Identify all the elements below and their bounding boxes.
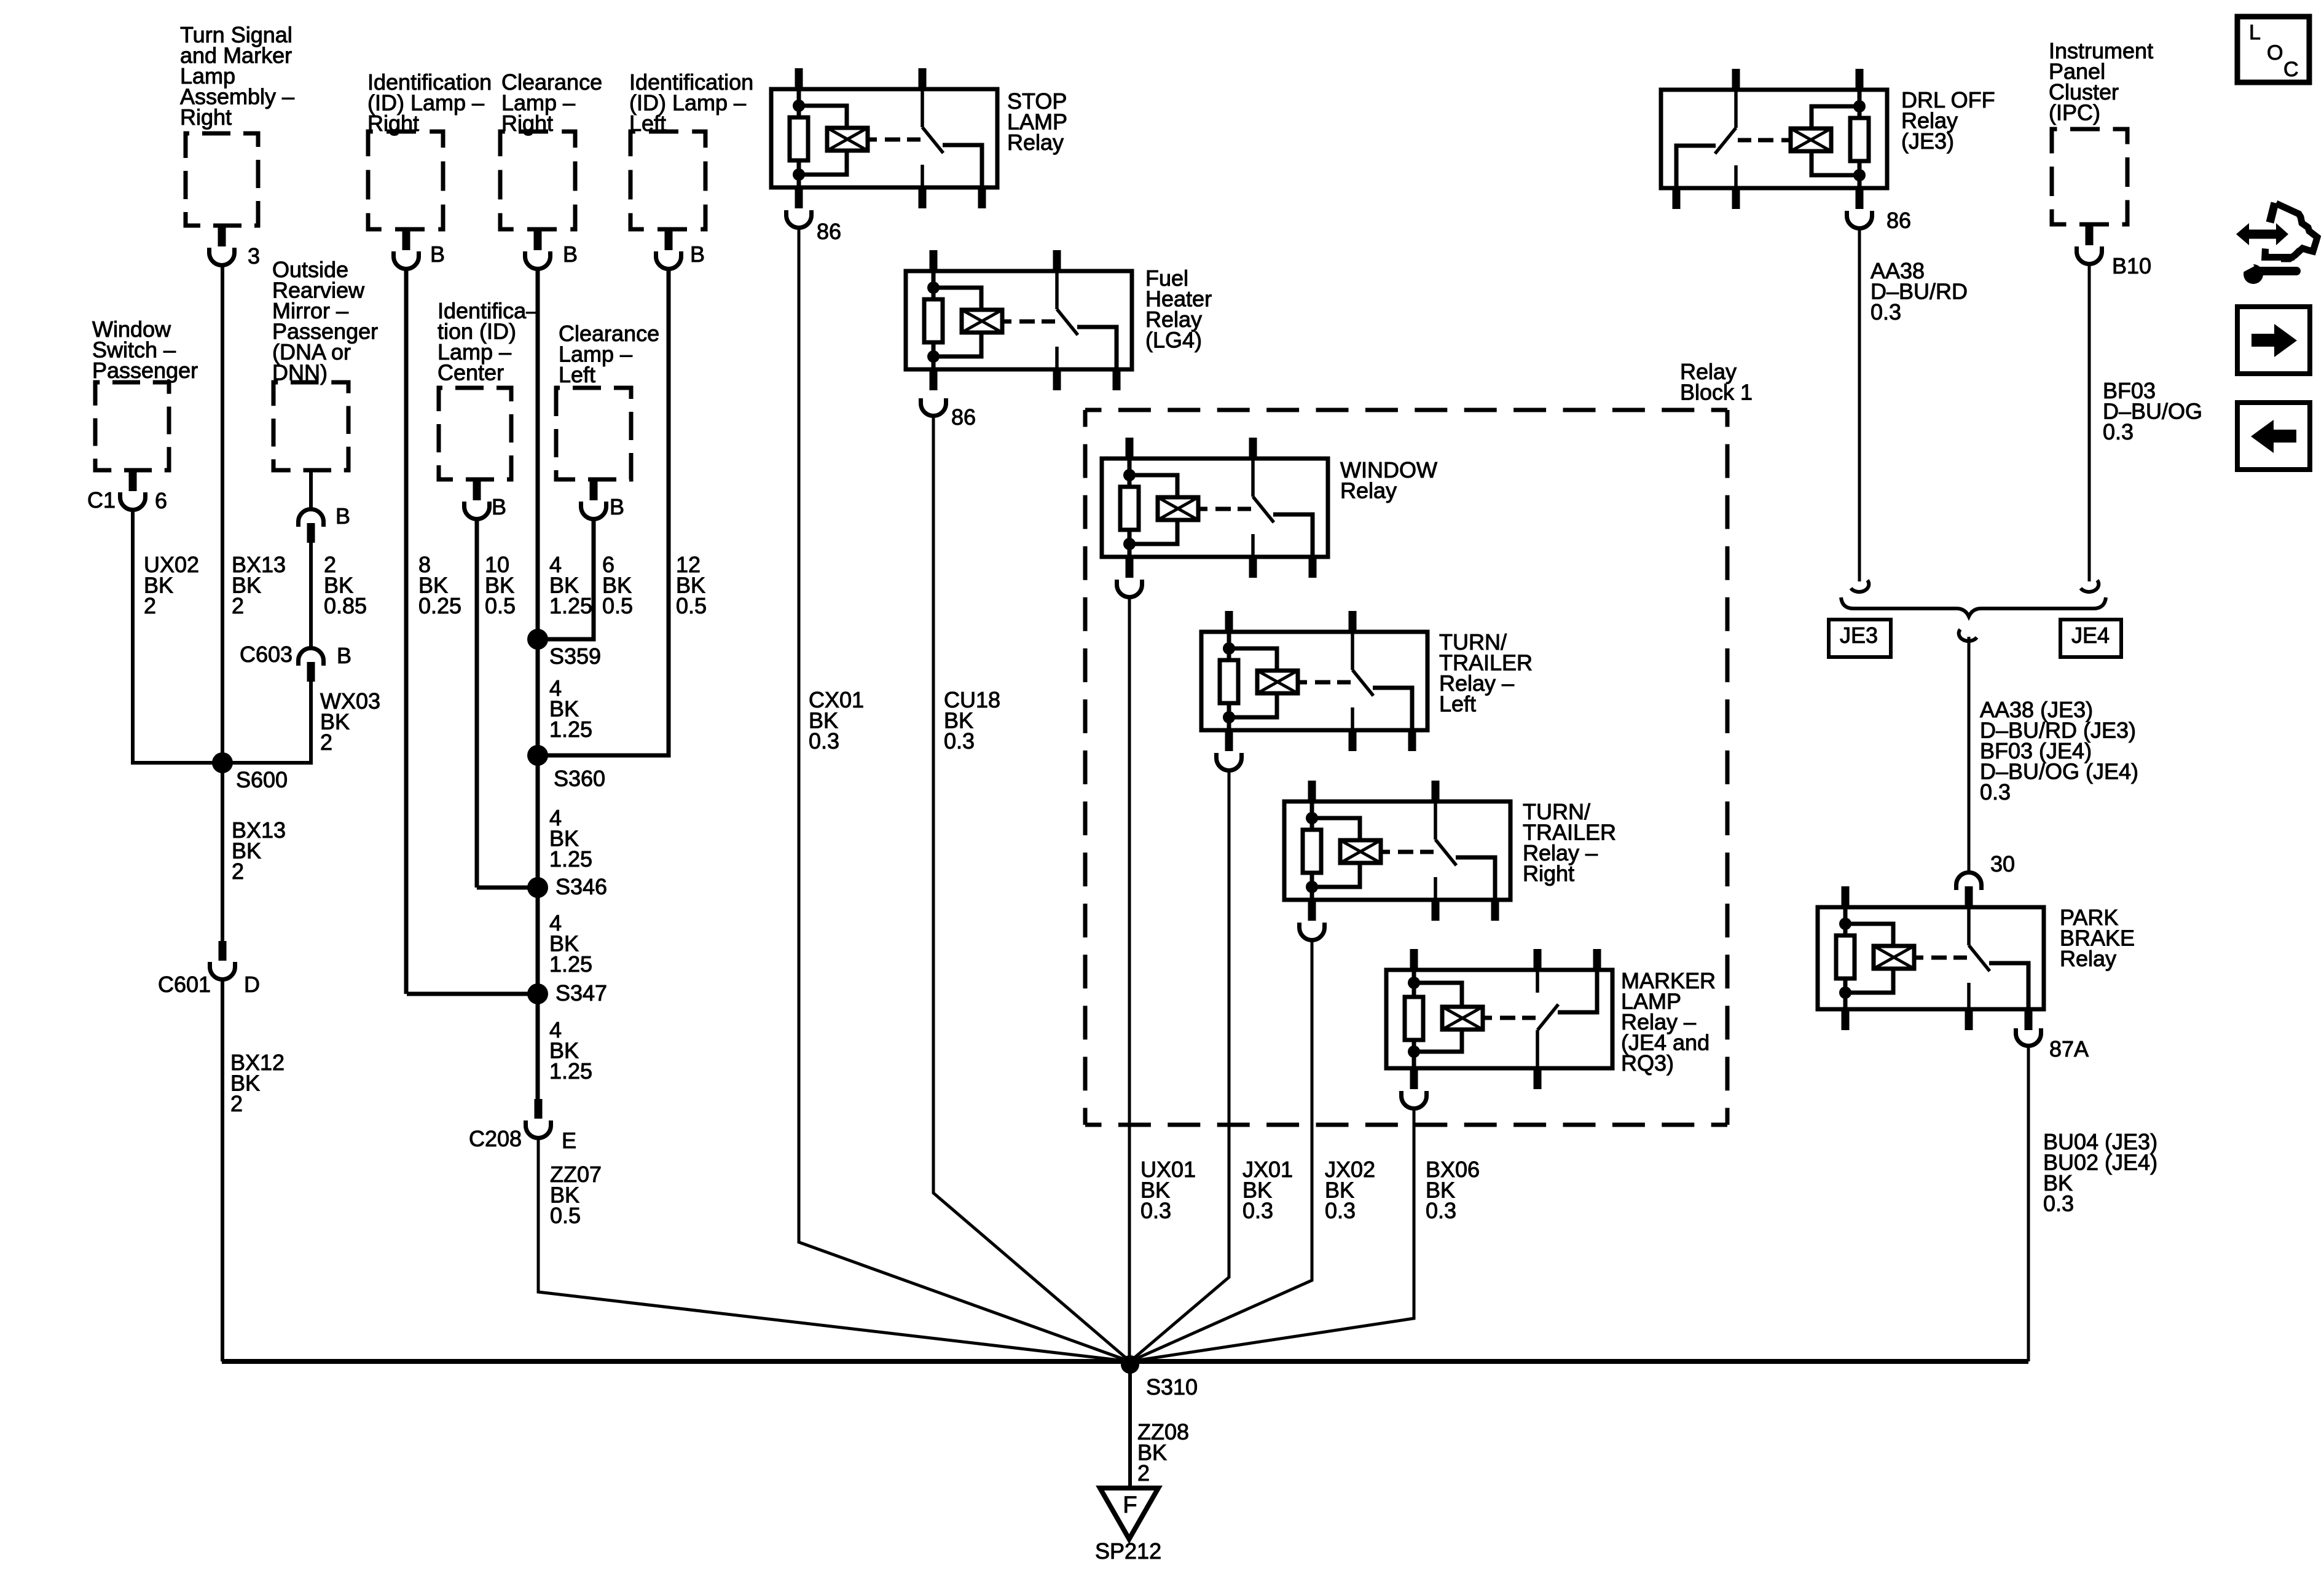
svg-text:B: B — [336, 503, 350, 529]
svg-text:1.25: 1.25 — [549, 846, 592, 872]
wire label BX06 BK 0.3 — [1426, 1157, 1480, 1223]
svg-text:Right: Right — [180, 104, 232, 130]
svg-text:Center: Center — [438, 360, 504, 385]
relay: WINDOW Relay — [1102, 438, 1328, 578]
svg-text:Passenger: Passenger — [92, 358, 198, 383]
wire label AA38 (JE3) D-BU/RD (JE3) BF03 (JE4) D-BU/OG (JE4) 0.3 — [1980, 697, 2138, 805]
svg-text:O: O — [2267, 41, 2283, 65]
ground bus wire to S310 — [222, 1359, 2028, 1364]
svg-text:C1: C1 — [87, 487, 116, 513]
wire label BX13 BK 2 (lower) — [232, 817, 286, 884]
wire label ZZ08 BK 2 — [1137, 1419, 1189, 1486]
svg-text:C603: C603 — [240, 642, 292, 667]
svg-text:86: 86 — [817, 219, 841, 244]
wire label UX02 BK 2 — [144, 552, 199, 618]
svg-text:C601: C601 — [158, 972, 211, 997]
svg-text:87A: 87A — [2049, 1036, 2089, 1061]
connector pin B of ID Lamp Right — [394, 229, 446, 269]
wire 10 BK 0.5 from ID lamp center down to S346 — [475, 518, 479, 888]
svg-text:0.3: 0.3 — [809, 728, 839, 754]
component: Clearance Lamp - Right — [500, 69, 602, 229]
net tag JE3 — [1829, 620, 1891, 657]
svg-text:(IPC): (IPC) — [2049, 100, 2100, 125]
ground symbol F SP212 — [1095, 1488, 1161, 1564]
wire ZZ08 from S310 down to ground — [1128, 1361, 1132, 1488]
splice S600 — [212, 752, 288, 792]
wire label 6 BK 0.5 — [602, 552, 633, 618]
svg-text:B10: B10 — [2112, 253, 2151, 278]
svg-text:Left: Left — [559, 362, 595, 387]
svg-text:0.3: 0.3 — [1871, 299, 1901, 325]
wire BX06 from marker lamp relay 86 down then diagonal to S310 — [1130, 1108, 1414, 1361]
splice S310 — [1121, 1355, 1198, 1400]
wire label 2 BK 0.85 — [324, 552, 367, 618]
wire ZZ07 from C208 down then diagonal to S310 — [538, 1138, 1130, 1361]
svg-text:RQ3): RQ3) — [1621, 1050, 1674, 1076]
wire CX01 from stop lamp relay 86 down then diagonal to S310 — [799, 227, 1130, 1361]
svg-text:C208: C208 — [469, 1126, 522, 1151]
relay: DRL OFF Relay (JE3) — [1661, 69, 1887, 209]
svg-text:1.25: 1.25 — [549, 1058, 592, 1084]
svg-text:0.3: 0.3 — [1980, 779, 2011, 805]
svg-text:B: B — [610, 494, 624, 519]
splice S346 — [527, 874, 607, 899]
connector 86 of WINDOW relay — [1117, 580, 1142, 597]
component: Turn Signal and Marker Lamp Assembly - Right — [180, 22, 294, 226]
svg-text:B: B — [563, 242, 578, 267]
wire BX13 from turn signal pin 3 down to S600 — [221, 264, 224, 763]
PARK BRAKE Relay label — [2060, 905, 2135, 971]
wire label BX13 BK 2 (upper) — [232, 552, 286, 618]
wire label 8 BK 0.25 — [418, 552, 461, 618]
svg-text:0.5: 0.5 — [676, 593, 707, 618]
wire label 4 BK 1.25 (S347-C208) — [549, 1017, 592, 1084]
wire label 4 BK 1.25 (S360-S346) — [549, 805, 592, 872]
svg-text:Relay: Relay — [1340, 478, 1397, 503]
merge brace joining AA38 and BF03 — [1841, 597, 2106, 616]
connector C1 pin 6 of Window Switch — [87, 470, 167, 513]
wire end hook of AA38 — [1851, 580, 1869, 592]
svg-text:S360: S360 — [554, 766, 605, 791]
WINDOW Relay label — [1340, 457, 1437, 503]
svg-text:Left: Left — [1439, 691, 1476, 717]
splice S360 — [527, 745, 605, 791]
svg-text:1.25: 1.25 — [549, 593, 592, 618]
wire JX01 from turn/trailer left relay 86 down then diagonal to S310 — [1130, 770, 1229, 1361]
svg-text:6: 6 — [155, 488, 167, 513]
svg-text:0.3: 0.3 — [1242, 1198, 1273, 1223]
svg-text:(JE3): (JE3) — [1901, 128, 1954, 154]
svg-text:0.5: 0.5 — [550, 1203, 581, 1228]
svg-text:S359: S359 — [549, 644, 601, 669]
svg-text:B: B — [430, 242, 445, 267]
component: Outside Rearview Mirror - Passenger (DNA or DNN) — [272, 257, 378, 470]
splice S347 — [527, 980, 607, 1006]
connector 86 of DRL OFF relay — [1847, 208, 1912, 233]
svg-text:Relay: Relay — [1007, 130, 1064, 155]
wire 4 BK 1.25 from clearance lamp right down to C208 — [536, 268, 540, 1099]
svg-text:L: L — [2249, 21, 2261, 44]
wire label BX12 BK 2 — [230, 1050, 285, 1116]
svg-text:2: 2 — [320, 730, 332, 755]
Fuel Heater Relay label — [1145, 266, 1212, 353]
wire label JX02 BK 0.3 — [1325, 1157, 1375, 1223]
svg-text:Right: Right — [1523, 861, 1574, 886]
icon: LOC box — [2237, 17, 2309, 82]
svg-text:30: 30 — [1990, 851, 2015, 876]
wire end hook of BF03 — [2081, 580, 2098, 592]
wire label 4 BK 1.25 (S359-S360) — [549, 675, 592, 742]
wire label 4 BK 1.25 (S346-S347) — [549, 910, 592, 977]
TURN/TRAILER Relay - Left label — [1439, 629, 1533, 717]
wire start hook below brace — [1959, 629, 1977, 641]
wire label 10 BK 0.5 — [485, 552, 516, 618]
wire BF03 from IPC B10 down to brace — [2088, 263, 2091, 581]
svg-text:Relay: Relay — [2060, 946, 2116, 971]
component: Identification (ID) Lamp - Center — [438, 298, 538, 479]
connector C208 pin E — [469, 1099, 576, 1153]
svg-text:0.3: 0.3 — [2043, 1191, 2074, 1216]
icon: box with right arrow — [2237, 307, 2310, 374]
wire label JX01 BK 0.3 — [1242, 1157, 1293, 1223]
wire 2 BK 0.85 from mirror B to C603 — [309, 543, 313, 649]
svg-text:1.25: 1.25 — [549, 951, 592, 977]
Relay Block 1 dashed enclosure — [1085, 359, 1753, 1125]
svg-text:0.3: 0.3 — [1325, 1198, 1356, 1223]
component: Instrument Panel Cluster (IPC) — [2049, 38, 2153, 224]
svg-text:D: D — [244, 972, 260, 997]
wire WX03 from C603 down and left to S600 — [226, 682, 311, 763]
relay: TURN/TRAILER Relay - Left — [1201, 611, 1427, 751]
svg-text:B: B — [337, 643, 351, 668]
svg-text:Block 1: Block 1 — [1680, 380, 1753, 405]
wire label BU04 (JE3) BU02 (JE4) BK 0.3 — [2043, 1129, 2157, 1216]
svg-text:2: 2 — [1137, 1460, 1150, 1486]
svg-text:JE4: JE4 — [2071, 623, 2110, 648]
icon: box with left arrow — [2237, 403, 2310, 470]
wire AA38 from DRL OFF relay 86 down to brace — [1858, 228, 1861, 581]
wire AA38/BF03 down to park brake relay 30 — [1968, 637, 1971, 874]
svg-text:JE3: JE3 — [1840, 623, 1878, 648]
svg-text:1.25: 1.25 — [549, 717, 592, 742]
relay: TURN/TRAILER Relay - Right — [1284, 781, 1510, 921]
connector pin 3 of Turn Signal lamp assembly — [210, 226, 261, 269]
connector 86 of Fuel Heater relay — [921, 398, 976, 430]
wire label 4 BK 1.25 (top) — [549, 552, 592, 618]
svg-text:2: 2 — [232, 859, 244, 884]
svg-text:C: C — [2283, 58, 2299, 81]
connector C601 pin D — [158, 941, 260, 997]
svg-text:F: F — [1123, 1492, 1137, 1518]
connector pin B of Clearance Lamp Left — [581, 479, 625, 519]
connector 86 of TURN/TRAILER relay left — [1217, 753, 1242, 771]
connector 87A of PARK BRAKE relay — [2016, 1028, 2089, 1061]
relay: PARK BRAKE Relay — [1818, 886, 2044, 1030]
svg-text:2: 2 — [230, 1091, 243, 1116]
connector 86 of TURN/TRAILER relay right — [1300, 923, 1325, 940]
connector 86 of MARKER LAMP relay — [1402, 1091, 1427, 1109]
svg-text:0.85: 0.85 — [324, 593, 367, 618]
wire 6 BK 0.5 from clearance lamp left down to S359 — [542, 518, 594, 639]
svg-text:3: 3 — [248, 243, 260, 269]
wire label BF03 D-BU/OG 0.3 — [2103, 378, 2202, 444]
svg-text:0.3: 0.3 — [1426, 1198, 1456, 1223]
svg-text:86: 86 — [951, 404, 976, 430]
wire BX13 from S600 down to C601 — [221, 763, 224, 941]
svg-text:86: 86 — [1886, 208, 1911, 233]
svg-text:S310: S310 — [1146, 1374, 1198, 1400]
MARKER LAMP Relay label — [1621, 968, 1716, 1076]
icon: hand with double arrow and wrench — [2236, 203, 2317, 284]
svg-text:S600: S600 — [236, 767, 288, 792]
wire label ZZ07 BK 0.5 — [550, 1162, 602, 1228]
connector pin B of Outside Rearview Mirror — [299, 470, 351, 543]
wire from S346 left to ID center wire — [477, 886, 542, 890]
wire label UX01 BK 0.3 — [1140, 1157, 1196, 1223]
wire label AA38 D-BU/RD 0.3 — [1871, 258, 1968, 325]
relay: Fuel Heater Relay (LG4) — [906, 250, 1132, 390]
wire label 12 BK 0.5 — [676, 552, 707, 618]
svg-text:2: 2 — [144, 593, 156, 618]
component: Clearance Lamp - Left — [556, 321, 659, 479]
wire UX01 from window relay 86 straight down to S310 — [1128, 597, 1131, 1361]
connector 86 of STOP LAMP relay — [787, 210, 842, 244]
connector pin B of Clearance Lamp Right — [525, 229, 578, 269]
svg-text:(LG4): (LG4) — [1145, 328, 1202, 353]
component: Identification (ID) Lamp - Left — [629, 69, 753, 229]
svg-text:0.5: 0.5 — [602, 593, 633, 618]
wire label WX03 BK 2 — [320, 688, 380, 755]
splice S359 — [527, 629, 601, 669]
wire JX02 from turn/trailer right relay 86 down then diagonal to S310 — [1130, 940, 1312, 1361]
wire label CU18 BK 0.3 — [944, 687, 1000, 754]
wire CU18 from fuel heater relay 86 down then diagonal to S310 — [933, 415, 1130, 1361]
TURN/TRAILER Relay - Right label — [1523, 799, 1616, 886]
wire BU04/BU02 from park brake 87A down and left along ground bus — [2027, 1045, 2030, 1361]
wire 8 BK 0.25 from ID lamp right down to S347 — [404, 268, 409, 994]
svg-text:2: 2 — [232, 593, 244, 618]
net tag JE4 — [2060, 620, 2121, 657]
svg-text:B: B — [492, 494, 506, 519]
svg-text:S346: S346 — [555, 874, 607, 899]
wire from S347 left to ID right wire — [407, 992, 542, 996]
wire BX12 from C601 down to ground bus — [221, 979, 224, 1361]
svg-text:0.3: 0.3 — [2103, 419, 2134, 444]
wire label CX01 BK 0.3 — [809, 687, 864, 754]
svg-text:0.3: 0.3 — [1140, 1198, 1171, 1223]
DRL OFF Relay label — [1901, 87, 1995, 154]
connector pin B of ID Lamp Left — [656, 229, 705, 269]
wire 12 BK 0.5 from ID lamp left down to S360 — [542, 268, 669, 755]
STOP LAMP Relay label — [1007, 89, 1067, 155]
svg-text:S347: S347 — [555, 980, 607, 1006]
component: Window Switch - Passenger — [92, 317, 198, 470]
connector pin B of ID Lamp Center — [465, 479, 507, 519]
svg-text:0.25: 0.25 — [418, 593, 461, 618]
connector 30 of PARK BRAKE relay — [1957, 851, 2016, 907]
svg-text:0.5: 0.5 — [485, 593, 516, 618]
svg-text:SP212: SP212 — [1095, 1538, 1161, 1564]
wire UX02 from window switch C1 down and right to S600 — [133, 509, 219, 763]
relay: MARKER LAMP Relay (JE4 and RQ3) — [1386, 949, 1612, 1089]
svg-text:B: B — [690, 242, 705, 267]
relay: STOP LAMP Relay — [771, 68, 997, 208]
svg-text:E: E — [562, 1128, 576, 1153]
connector C603 pin B — [240, 642, 351, 682]
svg-text:0.3: 0.3 — [944, 728, 975, 754]
connector pin B10 of IPC — [2077, 224, 2152, 278]
component: Identification (ID) Lamp - Right — [367, 69, 492, 229]
